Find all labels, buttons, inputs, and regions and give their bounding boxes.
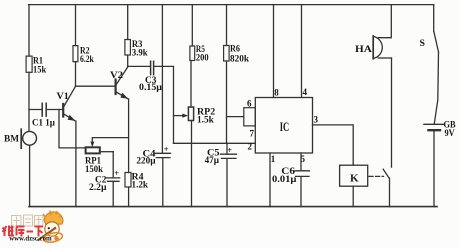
svg-text:S: S — [420, 38, 426, 49]
svg-text:BM: BM — [4, 134, 19, 145]
svg-text:1.2k: 1.2k — [132, 180, 149, 191]
svg-text:7: 7 — [250, 129, 255, 139]
svg-text:47µ: 47µ — [205, 155, 220, 166]
svg-text:www.dzsc.com: www.dzsc.com — [9, 234, 52, 243]
svg-text:0.01µ: 0.01µ — [272, 174, 297, 185]
svg-text:0.15µ: 0.15µ — [139, 82, 162, 93]
svg-text:820k: 820k — [230, 54, 250, 65]
svg-text:2: 2 — [248, 142, 253, 152]
svg-text:6.2k: 6.2k — [80, 54, 94, 65]
svg-text:8: 8 — [274, 88, 279, 98]
svg-text:2.2µ: 2.2µ — [89, 182, 107, 193]
svg-text:C1 1µ: C1 1µ — [32, 118, 55, 129]
svg-text:K: K — [350, 173, 359, 185]
svg-text:V2: V2 — [110, 70, 123, 81]
svg-text:1.5k: 1.5k — [197, 115, 214, 126]
svg-text:HA: HA — [355, 44, 372, 55]
svg-text:3: 3 — [314, 115, 319, 125]
svg-text:200: 200 — [196, 53, 209, 64]
svg-text:9V: 9V — [445, 128, 455, 139]
svg-text:15k: 15k — [33, 65, 47, 76]
svg-text:+: + — [164, 144, 169, 154]
svg-text:6: 6 — [247, 99, 252, 109]
svg-text:+: + — [114, 168, 119, 178]
svg-text:+: + — [227, 145, 232, 155]
svg-text:220µ: 220µ — [136, 156, 156, 167]
svg-text:IC: IC — [280, 120, 290, 134]
svg-text:5: 5 — [301, 154, 306, 164]
svg-text:150k: 150k — [85, 164, 103, 175]
svg-text:3.9k: 3.9k — [132, 48, 148, 59]
svg-text:V1: V1 — [57, 91, 69, 102]
svg-text:1: 1 — [271, 154, 276, 164]
svg-text:4: 4 — [303, 87, 308, 97]
